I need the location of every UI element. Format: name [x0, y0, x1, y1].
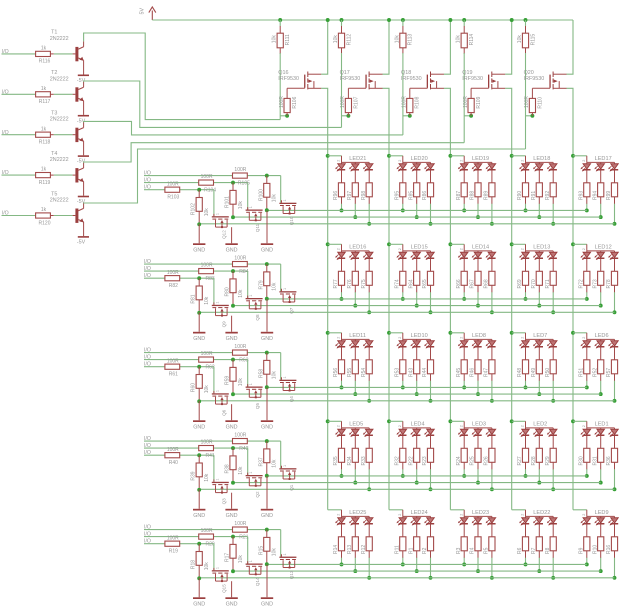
wire gate Q9: [213, 278, 215, 305]
junction R50 / bus: [551, 399, 555, 403]
svg-text:T2: T2: [51, 70, 57, 76]
wire R88 to row bus 2: [477, 197, 479, 204]
wire R44 to row bus 3: [430, 374, 432, 381]
transistor T5 2N2222: [75, 208, 83, 223]
wire feed to LED14: [450, 243, 464, 245]
resistor R37 10k: [258, 441, 277, 476]
svg-text:R19: R19: [169, 549, 178, 555]
svg-text:2N2222: 2N2222: [50, 117, 69, 123]
svg-text:T4: T4: [51, 151, 57, 157]
n-mosfet Q9 row 2: [212, 301, 229, 327]
resistor R74 in LED15: [394, 271, 406, 288]
wire R90 to row bus 1: [525, 197, 527, 204]
wire R6 to row bus 1: [525, 551, 527, 558]
wire row 5 input 3: [144, 543, 214, 545]
svg-text:10k: 10k: [394, 35, 400, 44]
junction column 5 / LED12: [571, 242, 575, 246]
svg-text:100R: 100R: [201, 440, 213, 446]
wire T3 collector to Q18 gate bus: [84, 121, 403, 134]
svg-text:R90: R90: [517, 191, 523, 200]
resistor R18 10k: [191, 544, 210, 579]
wire row 1 input 2: [144, 182, 248, 184]
resistor R7 in LED22: [531, 537, 543, 554]
resistor R35 in LED5: [333, 448, 345, 465]
svg-text:1: 1: [249, 295, 253, 297]
junction R6 / bus: [524, 562, 528, 566]
wire Q16 drain to LED column 1: [321, 88, 328, 510]
transistor T4 2N2222: [75, 168, 83, 183]
wire R69 to row bus 1: [525, 285, 527, 292]
wire feed to LED16: [328, 243, 342, 245]
resistor R32 in LED4: [394, 448, 406, 465]
wire R57 to row bus 3: [614, 374, 616, 381]
svg-text:Q1: Q1: [289, 484, 294, 491]
wire R97 to row bus 2: [354, 197, 356, 204]
svg-text:Q6: Q6: [221, 409, 226, 416]
LED LED3 element 2: [472, 428, 482, 450]
svg-text:R66: R66: [456, 279, 462, 288]
svg-text:R9: R9: [578, 547, 584, 554]
resistor R56 in LED11: [333, 360, 345, 377]
LED LED17 element 1: [581, 162, 591, 184]
wire row 1 cathode bus 3: [199, 223, 614, 225]
svg-text:R119: R119: [39, 180, 51, 186]
resistor R117 1k: [36, 86, 51, 105]
junction R27 / bus: [524, 474, 528, 478]
svg-text:LED1: LED1: [595, 422, 609, 428]
svg-text:R95: R95: [394, 191, 400, 200]
svg-text:R98: R98: [361, 191, 367, 200]
svg-text:LED18: LED18: [533, 156, 550, 162]
junction R22 / bus: [415, 481, 419, 485]
LED LED21 element 3: [363, 162, 373, 184]
wire R73 to row bus 2: [600, 285, 602, 292]
svg-text:Q19: Q19: [462, 70, 472, 76]
svg-text:2: 2: [398, 337, 402, 339]
svg-text:R40: R40: [169, 460, 178, 466]
wire base of T5: [54, 215, 73, 217]
wire row 3 input 1: [144, 352, 281, 354]
svg-text:R114: R114: [469, 34, 475, 46]
LED LED20 element 2: [410, 162, 420, 184]
svg-text:100R: 100R: [167, 181, 179, 187]
svg-text:R103: R103: [167, 195, 179, 201]
LED LED13 element 1: [519, 251, 529, 273]
svg-text:R57: R57: [606, 368, 612, 377]
LED LED10 element 3: [424, 339, 434, 361]
junction R70 / bus: [537, 304, 541, 308]
wire R26 to row bus 3: [491, 462, 493, 469]
resistor R100 10k: [258, 176, 277, 211]
wire feed to LED25: [328, 509, 342, 511]
resistor R41 100R: [199, 440, 215, 459]
junction column 3 / LED19: [448, 154, 452, 158]
svg-text:10k: 10k: [204, 562, 210, 571]
svg-text:R113: R113: [408, 34, 414, 46]
svg-text:Q17: Q17: [340, 70, 350, 76]
svg-text:2: 2: [459, 514, 463, 516]
resistor R85 in LED20: [408, 183, 420, 200]
svg-text:R35: R35: [333, 456, 339, 465]
resistor R89 in LED19: [484, 183, 496, 200]
wire row 2 input 2: [144, 270, 248, 272]
LED LED25 element 1: [335, 516, 345, 538]
wire R33 to row bus 3: [368, 462, 370, 469]
LED LED16 element 3: [363, 251, 373, 273]
svg-text:R8: R8: [545, 547, 551, 554]
resistor R106 100R: [279, 88, 298, 116]
resistor R90 in LED18: [517, 183, 529, 200]
wire Q18 drain to LED column 3: [444, 88, 451, 510]
anode rail of LED11: [342, 333, 370, 340]
svg-text:R71: R71: [545, 279, 551, 288]
junction R32 / bus: [401, 474, 405, 478]
svg-text:R75: R75: [361, 279, 367, 288]
wire R47 to row bus 3: [491, 374, 493, 381]
LED LED6 element 3: [608, 339, 618, 361]
junction R80 / bus: [231, 304, 235, 308]
junction column 1 / LED21: [326, 154, 330, 158]
wire R89 to row bus 3: [491, 197, 493, 204]
svg-text:1: 1: [283, 553, 287, 555]
junction R49 / bus: [537, 392, 541, 396]
svg-text:T1: T1: [51, 30, 57, 36]
junction column 3 / LED14: [448, 242, 452, 246]
wire jog to R106 node: [280, 115, 287, 117]
n-mosfet Q8 row 2: [246, 295, 263, 321]
wire base of T1: [54, 53, 73, 55]
anode rail of LED3: [464, 421, 492, 428]
n-mosfet Q6 row 3: [212, 390, 229, 416]
wire row 2 input 3: [144, 277, 214, 279]
junction R4 / bus: [476, 569, 480, 573]
junction R79 / bus: [265, 297, 269, 301]
resistor R29 in LED2: [545, 448, 557, 465]
svg-text:R49: R49: [531, 368, 537, 377]
junction column 4 / LED13: [510, 242, 514, 246]
LED LED9 element 3: [608, 516, 618, 538]
svg-text:LED22: LED22: [533, 510, 550, 516]
svg-text:R37: R37: [258, 457, 264, 466]
svg-text:GND: GND: [193, 247, 205, 253]
svg-text:IRF9530: IRF9530: [401, 76, 422, 82]
junction R8 / bus: [551, 576, 555, 580]
resistor R47 in LED8: [484, 360, 496, 377]
LED LED23 element 3: [486, 516, 496, 538]
LED LED15 element 3: [424, 251, 434, 273]
resistor R92 in LED18: [545, 183, 557, 200]
svg-text:R1: R1: [408, 547, 414, 554]
svg-text:LED24: LED24: [411, 510, 428, 516]
LED LED3 element 3: [486, 428, 496, 450]
svg-text:10k: 10k: [238, 201, 244, 210]
wire row 5 cathode bus 2: [233, 570, 601, 572]
wire R14 to row bus 1: [341, 551, 343, 558]
svg-text:LED6: LED6: [595, 333, 609, 339]
resistor R102 10k: [191, 190, 210, 225]
anode rail of LED7: [526, 333, 554, 340]
junction R37 / input wire: [265, 439, 269, 443]
wire feed to LED23: [450, 509, 464, 511]
junction rail / Q18 source: [448, 18, 452, 22]
wire R110 to Q20 gate: [532, 87, 550, 89]
anode rail of LED12: [587, 244, 615, 251]
wire R50 to row bus 3: [552, 374, 554, 381]
wire gate Q2: [247, 448, 249, 475]
LED LED23 element 1: [458, 516, 468, 538]
LED LED15 element 1: [397, 251, 407, 273]
anode rail of LED23: [464, 510, 492, 517]
svg-text:GND: GND: [193, 336, 205, 342]
LED LED20 element 1: [397, 162, 407, 184]
wire row 4 input 1: [144, 440, 281, 442]
wire R53 to row bus 1: [402, 374, 404, 381]
junction R71 / bus: [551, 310, 555, 314]
svg-text:T3: T3: [51, 111, 57, 117]
resistor R78 in LED12: [606, 271, 618, 288]
wire rail to R114: [463, 20, 465, 26]
junction rail / R112: [340, 18, 344, 22]
junction R87 / bus: [462, 208, 466, 212]
junction column 3 / LED8: [448, 331, 452, 335]
resistor R82 100R: [165, 270, 180, 289]
junction R73 / bus: [599, 304, 603, 308]
wire R68 to row bus 3: [491, 285, 493, 292]
svg-text:R47: R47: [484, 368, 490, 377]
wire I/O to R119: [2, 174, 37, 176]
junction R14 / bus: [340, 562, 344, 566]
resistor R43 in LED10: [408, 360, 420, 377]
junction R98 / bus: [367, 222, 371, 226]
n-mosfet Q3 row 4: [212, 478, 229, 504]
junction rail / Q19 source: [510, 18, 514, 22]
wire row 4 input 3: [144, 454, 214, 456]
svg-text:R58: R58: [258, 369, 264, 378]
svg-text:Q3: Q3: [221, 498, 226, 505]
resistor R31 in LED1: [592, 448, 604, 465]
resistor R49 in LED7: [531, 360, 543, 377]
junction R13 / bus: [353, 569, 357, 573]
svg-text:IRF9530: IRF9530: [278, 76, 299, 82]
wire Q19 drain to LED column 4: [505, 88, 512, 510]
resistor R38 10k: [225, 448, 244, 483]
svg-text:R104: R104: [204, 187, 216, 193]
svg-text:GND: GND: [193, 424, 205, 430]
resistor R108 100R: [402, 88, 421, 116]
svg-text:2: 2: [521, 248, 525, 250]
LED LED5 element 1: [335, 428, 345, 450]
wire T5 collector stub: [83, 203, 85, 208]
resistor R55 in LED11: [347, 360, 359, 377]
resistor R68 in LED14: [484, 271, 496, 288]
svg-text:R14: R14: [333, 545, 339, 554]
svg-text:100R: 100R: [234, 521, 246, 527]
svg-text:2: 2: [521, 425, 525, 427]
wire R92 to row bus 3: [552, 197, 554, 204]
resistor R8 in LED22: [545, 537, 557, 554]
p-mosfet Q16 IRF9530: [304, 72, 321, 90]
resistor R96 in LED21: [333, 183, 345, 200]
LED LED18 element 2: [533, 162, 543, 184]
svg-text:R30: R30: [578, 456, 584, 465]
wire rail to R111: [279, 20, 281, 26]
svg-text:R56: R56: [333, 368, 339, 377]
svg-text:R46: R46: [470, 368, 476, 377]
svg-text:Q2: Q2: [255, 491, 260, 498]
anode rail of LED21: [342, 156, 370, 163]
svg-text:R100: R100: [258, 189, 264, 201]
anode rail of LED10: [403, 333, 431, 340]
junction R29 / bus: [551, 487, 555, 491]
resistor R46 in LED8: [470, 360, 482, 377]
junction R34 / bus: [353, 481, 357, 485]
svg-text:5V: 5V: [140, 8, 146, 15]
svg-text:R26: R26: [484, 456, 490, 465]
wire R113 to gate node: [402, 53, 404, 135]
svg-text:100R: 100R: [167, 535, 179, 541]
resistor R6 in LED22: [517, 537, 529, 554]
wire R23 to row bus 3: [430, 462, 432, 469]
svg-text:R25: R25: [470, 456, 476, 465]
n-mosfet Q11 row 1: [246, 206, 263, 232]
wire R99 to row bus 3: [614, 197, 616, 204]
junction R15 / input wire: [265, 528, 269, 532]
svg-text:GND: GND: [226, 513, 238, 519]
svg-text:R101: R101: [225, 196, 231, 208]
svg-text:IRF9530: IRF9530: [340, 76, 361, 82]
wire feed to LED17: [573, 155, 587, 157]
svg-text:R39: R39: [191, 471, 197, 480]
anode rail of LED6: [587, 333, 615, 340]
wire T5 emitter to -5V: [83, 222, 85, 236]
svg-text:1k: 1k: [41, 86, 47, 92]
junction R66 / bus: [462, 297, 466, 301]
wire R55 to row bus 2: [354, 374, 356, 381]
svg-text:100R: 100R: [524, 96, 530, 108]
junction R7 / bus: [537, 569, 541, 573]
resistor R33 in LED5: [361, 448, 373, 465]
svg-text:R29: R29: [545, 456, 551, 465]
resistor R88 in LED19: [470, 183, 482, 200]
svg-text:R96: R96: [333, 191, 339, 200]
svg-text:R5: R5: [484, 547, 490, 554]
svg-text:10k: 10k: [204, 385, 210, 394]
svg-text:LED2: LED2: [533, 422, 547, 428]
junction R90 / bus: [524, 208, 528, 212]
svg-text:R2: R2: [422, 547, 428, 554]
resistor R77 in LED16: [333, 271, 345, 288]
wire gate Q15: [213, 544, 215, 571]
LED LED15 element 2: [410, 251, 420, 273]
junction R77 / bus: [340, 297, 344, 301]
resistor R101 10k: [225, 183, 244, 218]
junction column 5 / LED1: [571, 419, 575, 423]
svg-text:Q4: Q4: [289, 396, 294, 403]
svg-text:R7: R7: [531, 547, 537, 554]
LED LED4 element 2: [410, 428, 420, 450]
svg-text:2N2222: 2N2222: [50, 76, 69, 82]
resistor R114 10k: [456, 26, 475, 54]
wire gate Q10: [280, 176, 282, 203]
wire R108 to Q18 gate: [410, 87, 428, 89]
svg-text:R32: R32: [394, 456, 400, 465]
anode rail of LED5: [342, 421, 370, 428]
anode rail of LED24: [403, 510, 431, 517]
svg-text:R85: R85: [408, 191, 414, 200]
supply -5V under T5: [77, 236, 89, 245]
wire gate Q6: [213, 367, 215, 394]
anode rail of LED1: [587, 421, 615, 428]
svg-text:LED13: LED13: [533, 245, 550, 251]
junction R37 / bus: [265, 474, 269, 478]
svg-text:R54: R54: [361, 368, 367, 377]
LED LED6 element 1: [581, 339, 591, 361]
resistor R22 in LED4: [408, 448, 420, 465]
wire R8 to row bus 3: [552, 551, 554, 558]
wire row 3 cathode bus 1: [267, 386, 587, 388]
resistor R97 in LED21: [347, 183, 359, 200]
wire I/O to R120: [2, 215, 37, 217]
svg-text:R53: R53: [394, 368, 400, 377]
junction R92 / bus: [551, 222, 555, 226]
svg-text:R92: R92: [545, 191, 551, 200]
junction R48 / bus: [524, 385, 528, 389]
wire R25 to row bus 2: [477, 462, 479, 469]
svg-text:10k: 10k: [204, 473, 210, 482]
LED LED19 element 3: [486, 162, 496, 184]
resistor R58 10k: [258, 353, 277, 388]
ground middle row 2: [225, 316, 237, 342]
LED LED12 element 3: [608, 251, 618, 273]
wire row 4 input 2: [144, 447, 248, 449]
svg-text:2: 2: [398, 425, 402, 427]
svg-text:10k: 10k: [238, 378, 244, 387]
ground under R60: [193, 401, 205, 431]
wire R107 to Q17 gate: [348, 87, 366, 89]
svg-text:R55: R55: [347, 368, 353, 377]
svg-text:T5: T5: [51, 191, 57, 197]
resistor R79 10k: [258, 264, 277, 299]
wire R91 to row bus 2: [538, 197, 540, 204]
resistor R34 in LED5: [347, 448, 359, 465]
svg-text:R107: R107: [353, 96, 359, 108]
junction R38 / input wire: [231, 446, 235, 450]
resistor R104 100R: [199, 174, 217, 193]
resistor R103 100R: [165, 181, 180, 200]
svg-text:R81: R81: [191, 294, 197, 303]
LED LED16 element 2: [349, 251, 359, 273]
svg-text:10k: 10k: [238, 289, 244, 298]
resistor R111 10k: [272, 26, 291, 54]
svg-text:1: 1: [283, 199, 287, 201]
wire gate Q1: [280, 441, 282, 468]
svg-text:GND: GND: [261, 424, 273, 430]
resistor R75 in LED16: [361, 271, 373, 288]
wire row 5 input 2: [144, 536, 248, 538]
resistor R11 in LED24: [394, 537, 406, 554]
svg-text:-5V: -5V: [77, 199, 86, 205]
resistor R1 in LED24: [408, 537, 420, 554]
wire feed to LED2: [512, 420, 526, 422]
LED LED23 element 2: [472, 516, 482, 538]
junction R56 / bus: [340, 385, 344, 389]
resistor R61 100R: [165, 358, 180, 377]
resistor R72 in LED12: [578, 271, 590, 288]
svg-text:2: 2: [582, 514, 586, 516]
resistor R10 in LED9: [592, 537, 604, 554]
junction R72 / bus: [585, 297, 589, 301]
svg-text:2: 2: [521, 514, 525, 516]
